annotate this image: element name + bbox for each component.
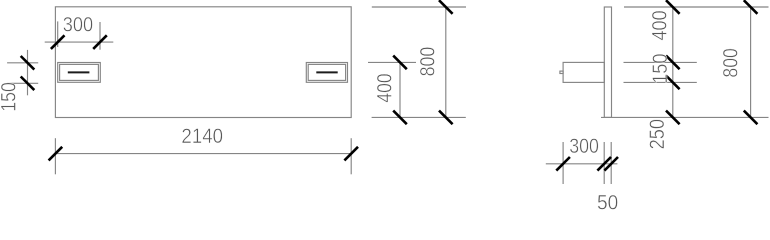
side bottom ext line — [601, 116, 769, 118]
tick dim50 right — [604, 157, 618, 171]
panel side view outline — [604, 7, 611, 117]
svg-text:400: 400 — [648, 10, 672, 40]
dim 2140 ext line left — [54, 138, 56, 174]
side stub-bottom ext line — [624, 81, 697, 83]
dim 2140 ext line right — [350, 138, 352, 174]
svg-text:150: 150 — [648, 53, 672, 83]
slot right inner — [308, 64, 345, 80]
svg-text:2140: 2140 — [181, 124, 223, 148]
dim 50 side ext line right — [610, 142, 612, 184]
tick dim300 left — [51, 35, 65, 49]
svg-text:50: 50 — [597, 191, 618, 213]
slot right bar — [316, 71, 337, 73]
tick dim300 right — [93, 35, 107, 49]
svg-text:300: 300 — [63, 13, 93, 37]
tick side dimA stub-top — [666, 56, 680, 70]
tick dim150 top — [21, 56, 35, 70]
dim 400 line front — [399, 62, 401, 117]
tick side dimA top — [666, 0, 680, 14]
dim 300 ext line left — [57, 21, 59, 47]
side dim line 400/150/250 — [672, 7, 674, 117]
dim 800 ext line bottom front — [372, 116, 466, 118]
slot stub side view — [563, 62, 604, 82]
slot left inner — [60, 64, 99, 80]
tick dim800 front bottom — [439, 111, 453, 125]
tick dim400 front top — [393, 56, 407, 70]
side stub-top ext line — [624, 61, 697, 63]
side top ext line — [624, 6, 769, 8]
dim 150 ext line bottom — [7, 82, 38, 84]
slot left outer — [58, 63, 101, 83]
dim 150 line — [27, 50, 29, 95]
dim 150 ext line top — [7, 62, 38, 64]
tick side dim800 top — [744, 0, 758, 14]
dim 300 side line — [546, 163, 618, 165]
svg-text:800: 800 — [719, 48, 743, 77]
panel front view outline — [55, 7, 351, 118]
svg-text:400: 400 — [373, 73, 397, 102]
tick dim150 bottom — [21, 77, 35, 91]
tick dim300 side left — [556, 157, 570, 171]
tick dim2140 right — [344, 147, 358, 161]
svg-text:150: 150 — [0, 82, 20, 112]
tick dim400 front bottom — [393, 111, 407, 125]
tick side dimA stub-bottom — [666, 76, 680, 90]
svg-text:300: 300 — [569, 134, 599, 158]
tick side dim800 bottom — [744, 111, 758, 125]
side dim line 800 — [750, 7, 752, 117]
dim 300 side ext line left — [562, 142, 564, 184]
tick dim800 front top — [439, 0, 453, 14]
slot left bar — [68, 71, 90, 73]
tick side dimA bottom — [666, 111, 680, 125]
tick dim2140 left — [49, 147, 63, 161]
dim 300 line — [45, 41, 114, 43]
dim 300 side ext line mid — [603, 142, 605, 184]
dim 800 ext line top front — [372, 6, 466, 8]
slot right outer — [306, 63, 347, 83]
dim 2140 line — [55, 153, 351, 155]
dim 800 line front — [445, 7, 447, 117]
tick dim300 side right / dim50 left — [597, 157, 611, 171]
dim 400 ext line slot-top level — [368, 61, 416, 63]
dim 300 ext line right — [99, 22, 101, 50]
svg-text:800: 800 — [415, 47, 439, 77]
svg-text:250: 250 — [645, 119, 669, 150]
nub on stub — [560, 71, 563, 73]
